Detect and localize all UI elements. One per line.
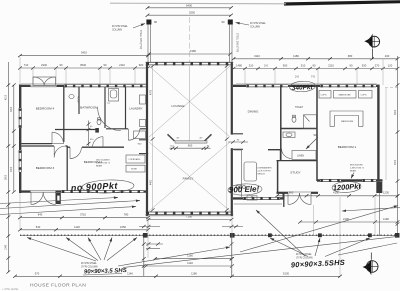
svg-text:2110: 2110	[119, 63, 125, 67]
svg-text:640: 640	[38, 213, 43, 217]
french doors swing bottom	[31, 192, 43, 205]
svg-text:7190: 7190	[186, 215, 192, 219]
svg-text:1050: 1050	[120, 225, 126, 229]
svg-text:90: 90	[90, 126, 93, 128]
kitchen bench west	[241, 150, 243, 197]
stub dims left of tower bottom	[146, 243, 163, 245]
cooktop circles	[236, 186, 239, 189]
svg-text:3290: 3290	[395, 109, 397, 115]
interior wall laundry west	[125, 87, 127, 129]
tower inner dim west	[152, 66, 154, 210]
svg-text:1980: 1980	[190, 49, 196, 53]
svg-text:TOILET: TOILET	[295, 107, 304, 109]
svg-text:BEDROOM 4: BEDROOM 4	[36, 107, 55, 111]
interior wall robe	[78, 87, 80, 114]
wall kitchen south	[233, 197, 284, 199]
svg-text:270: 270	[375, 64, 380, 68]
interior wall laundry south + door	[106, 128, 128, 130]
svg-text:BEDROOM 2: BEDROOM 2	[84, 160, 103, 164]
svg-text:WARDROBE: WARDROBE	[341, 120, 354, 123]
svg-text:BEAM: BEAM	[350, 170, 356, 173]
svg-text:LINEN: LINEN	[297, 155, 304, 158]
dim line top-right tier1	[232, 54, 400, 61]
svg-text:680: 680	[348, 54, 353, 58]
svg-text:3540: 3540	[80, 63, 86, 67]
interior wall bed3 north + door	[22, 145, 55, 147]
opening tower west to hall	[144, 141, 147, 154]
svg-text:210: 210	[249, 64, 254, 68]
svg-text:120: 120	[388, 64, 393, 68]
svg-text:2-0: 2-0	[295, 75, 299, 79]
svg-text:1146: 1146	[127, 272, 133, 276]
svg-text:(TYP) COLUMN: (TYP) COLUMN	[81, 266, 98, 268]
wall tower north glazed	[146, 61, 234, 63]
scan edge band top	[284, 0, 400, 5]
vertical dim tower left bottom	[143, 237, 145, 276]
svg-text:900: 900	[289, 191, 294, 195]
svg-text:90 SHS STEEL: 90 SHS STEEL	[81, 263, 98, 265]
dim line right bottom main	[275, 191, 399, 198]
svg-text:BEDROOM 1: BEDROOM 1	[338, 145, 357, 149]
arrows from right note	[256, 210, 305, 256]
wall bed1 south	[317, 179, 383, 181]
svg-text:FAMILY: FAMILY	[183, 177, 194, 181]
svg-text:90: 90	[237, 139, 240, 141]
fixture bath tub	[109, 89, 119, 102]
svg-text:4400: 4400	[150, 179, 152, 185]
north symbol bottom	[363, 253, 379, 276]
svg-text:90 SHS STEEL: 90 SHS STEEL	[112, 26, 129, 28]
svg-text:CUPBOARD: CUPBOARD	[129, 158, 141, 161]
svg-text:90: 90	[313, 64, 316, 68]
window glazing bottom wall	[62, 190, 144, 193]
svg-text:900: 900	[188, 144, 193, 148]
svg-text:6400: 6400	[186, 3, 192, 7]
wall study south + double door	[277, 192, 289, 194]
wall kitchen/study connector	[283, 193, 285, 200]
hall mini dims	[88, 121, 90, 147]
svg-text:4210: 4210	[6, 94, 8, 100]
centerline	[189, 66, 191, 141]
svg-text:3710: 3710	[80, 213, 86, 217]
dim line top-right tier2	[232, 64, 400, 71]
interior wall bed2 north + door	[67, 146, 70, 148]
hall door arc to bed2 side	[93, 137, 104, 148]
svg-text:3600: 3600	[6, 174, 8, 180]
pier beside french door	[56, 193, 61, 204]
door arcs study	[288, 193, 300, 205]
svg-text:45°: 45°	[199, 138, 202, 140]
dim line tower bottom 7190	[147, 215, 234, 221]
wall left wing west	[19, 85, 21, 193]
svg-text:LOUNGE: LOUNGE	[171, 104, 184, 108]
dim line between columns	[147, 49, 232, 56]
door arc bed4	[52, 132, 63, 143]
door arc bed3	[54, 146, 65, 157]
svg-text:4780: 4780	[150, 89, 152, 95]
svg-text:90: 90	[350, 64, 353, 68]
wall left wing top	[19, 85, 147, 87]
svg-text:CUP'D: CUP'D	[361, 94, 368, 96]
steel column left	[139, 20, 157, 63]
svg-text:530: 530	[362, 64, 367, 68]
fixture wc	[97, 119, 101, 125]
svg-text:90: 90	[154, 20, 157, 24]
svg-text:90: 90	[60, 63, 63, 67]
svg-text:BEAM: BEAM	[96, 164, 102, 167]
svg-text:BENCH: BENCH	[258, 174, 266, 176]
dim line top-left tier2	[18, 63, 150, 70]
north symbol top	[364, 34, 379, 59]
svg-text:1340: 1340	[6, 244, 8, 250]
svg-text:1180: 1180	[293, 54, 299, 58]
svg-text:COLUMN: COLUMN	[250, 26, 260, 28]
svg-text:3110: 3110	[254, 54, 260, 58]
svg-text:HOUSE FLOOR PLAN: HOUSE FLOOR PLAN	[30, 283, 86, 289]
svg-text:45°: 45°	[176, 138, 179, 140]
fireplace between lounge and family	[168, 134, 212, 149]
svg-text:90: 90	[314, 133, 317, 137]
dim line 1180 under tower	[153, 254, 234, 261]
kitchen sink	[247, 196, 252, 200]
svg-text:900: 900	[283, 64, 288, 68]
svg-text:900: 900	[139, 63, 144, 67]
wall right wing top	[233, 85, 380, 87]
svg-text:5410: 5410	[81, 51, 87, 55]
svg-text:7-0: 7-0	[311, 75, 315, 79]
svg-text:710: 710	[24, 63, 29, 67]
vertical dim tower right bottom	[231, 237, 233, 276]
left margin vertical dims	[6, 62, 16, 274]
svg-text:340Pkt: 340Pkt	[292, 84, 314, 92]
svg-text:1190: 1190	[191, 272, 197, 276]
svg-text:COLUMN: COLUMN	[112, 29, 122, 31]
wall left wing bottom	[19, 190, 147, 192]
kitchen bench south edge	[234, 203, 282, 205]
svg-text:3290: 3290	[11, 106, 13, 112]
svg-text:90×90×3.5SHS: 90×90×3.5SHS	[291, 258, 346, 270]
kitchen island	[244, 162, 257, 181]
svg-text:780: 780	[124, 213, 129, 217]
svg-text:ROBE: ROBE	[77, 96, 79, 103]
tower inner dim east	[226, 66, 228, 210]
svg-text:CUP'D: CUP'D	[321, 94, 328, 96]
note 90 SHS steel column left	[112, 24, 145, 32]
eave line east	[385, 88, 387, 180]
svg-text:ROBE: ROBE	[131, 169, 138, 171]
svg-text:90 SHS STEEL: 90 SHS STEEL	[250, 23, 267, 25]
svg-text:STUDY: STUDY	[290, 171, 301, 175]
svg-text:DISHWASHER: DISHWASHER	[258, 167, 273, 170]
ceiling diagonals family	[149, 142, 230, 211]
svg-text:2-DR TOP HS: 2-DR TOP HS	[258, 171, 272, 173]
dim line top center tier1	[146, 3, 233, 9]
cupboard row bed1	[319, 91, 331, 99]
interior wall bed4 east	[63, 87, 65, 142]
svg-text:820: 820	[90, 139, 94, 141]
wall ens south	[281, 128, 317, 130]
dim line 1140	[144, 261, 234, 267]
svg-text:STEEL SHS (TYP): STEEL SHS (TYP)	[139, 30, 141, 49]
annotation arrows left wing	[0, 198, 118, 204]
steel column right	[222, 20, 238, 63]
verandah east edge	[379, 193, 381, 236]
wall study west	[277, 160, 279, 193]
fixture basin	[69, 95, 74, 99]
window glazing top wall	[64, 84, 146, 87]
svg-text:WARDROBE: WARDROBE	[339, 93, 352, 96]
posts on terrace edge	[143, 233, 148, 238]
right margin vertical dim	[395, 56, 400, 238]
interior wall bed2/bed3 divider	[66, 146, 68, 191]
interior wall bath east	[104, 87, 106, 128]
svg-text:90: 90	[104, 63, 107, 67]
svg-text:STEEL SHS (TYP): STEEL SHS (TYP)	[236, 33, 238, 52]
dim line right 2190	[298, 217, 399, 223]
svg-text:570: 570	[35, 272, 40, 276]
svg-text:2-SECTION #2: 2-SECTION #2	[350, 168, 365, 170]
small offset dims tower corners	[139, 226, 160, 228]
svg-text:1190: 1190	[383, 217, 389, 221]
ext lines top-left	[19, 57, 21, 85]
door arc hall big	[98, 108, 121, 131]
dim line left bottom tier1	[18, 213, 150, 220]
fixture laundry tub	[140, 120, 146, 127]
cupboard boxes bed2	[126, 155, 145, 163]
svg-text:2-0: 2-0	[264, 64, 268, 68]
pier south-east corner	[376, 182, 382, 193]
dim line top center tier2	[146, 11, 233, 17]
linen closet	[292, 151, 316, 160]
wall tower south glazed	[146, 211, 234, 213]
wall study east / bed1 west	[316, 87, 318, 181]
svg-text:1120: 1120	[74, 225, 80, 229]
fixture wc ens	[292, 117, 296, 123]
svg-text:900: 900	[138, 144, 142, 146]
dim line left bottom tier2	[18, 225, 150, 232]
svg-text:90: 90	[222, 20, 225, 24]
ext line left wing bottom	[19, 193, 21, 229]
fixture shower ens	[304, 115, 317, 129]
hatched terrace edge	[20, 234, 398, 236]
note 90 SHS steel column right	[236, 23, 267, 29]
svg-text:2340: 2340	[41, 63, 47, 67]
wall tower west	[146, 62, 148, 216]
wall ens west	[280, 87, 282, 160]
window french door gap top	[31, 84, 57, 87]
fixture vanity ens	[283, 132, 295, 138]
french doors swing top	[33, 77, 56, 86]
dim line top-left tier1 5410	[18, 51, 150, 58]
svg-text:TLT: TLT	[107, 103, 111, 105]
svg-text:BRICKWORK: BRICKWORK	[350, 165, 363, 167]
svg-text:540: 540	[36, 225, 41, 229]
svg-text:3300: 3300	[11, 166, 13, 172]
ext lines bottom	[147, 216, 149, 258]
interior wall bed4 south + door	[22, 143, 53, 145]
walk-in robe U	[330, 111, 363, 127]
door arc laundry	[128, 129, 139, 140]
svg-text:230: 230	[385, 54, 390, 58]
hall cupboard by tower	[134, 131, 146, 139]
wall study north	[277, 160, 318, 162]
centerline tower top	[189, 17, 191, 62]
svg-text:5130: 5130	[283, 272, 289, 276]
svg-text:2550: 2550	[189, 11, 195, 15]
arrows from left note to posts	[27, 238, 96, 262]
svg-text:BATHROOM: BATHROOM	[80, 106, 98, 110]
eave dashed line right	[385, 87, 400, 89]
french door gap bottom	[31, 190, 56, 193]
ceiling diagonals lounge	[149, 66, 230, 137]
svg-text:1230: 1230	[383, 191, 389, 195]
wall stub hall	[95, 128, 99, 133]
svg-text:1480: 1480	[236, 64, 242, 68]
svg-text:2110: 2110	[328, 64, 334, 68]
wall right wing east	[377, 85, 379, 182]
svg-text:510: 510	[301, 64, 306, 68]
dim line bottom long	[13, 272, 342, 278]
opening tower east to dining	[230, 135, 233, 149]
svg-text:3300: 3300	[395, 159, 397, 165]
svg-text:1140: 1140	[187, 261, 193, 265]
svg-text:BEDROOM 3: BEDROOM 3	[36, 166, 55, 170]
wall tower east	[231, 62, 233, 216]
svg-text:+ SITE LEVEL: + SITE LEVEL	[2, 287, 19, 291]
svg-text:LAUNDRY: LAUNDRY	[129, 107, 142, 111]
svg-text:DINING: DINING	[248, 110, 259, 114]
door arc bed2	[70, 147, 81, 158]
interior wall hall north	[55, 129, 98, 131]
